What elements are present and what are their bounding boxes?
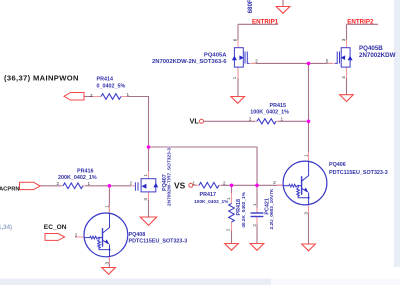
svg-text:1,34): 1,34) <box>0 224 12 231</box>
svg-text:2: 2 <box>90 93 93 98</box>
svg-text:3: 3 <box>104 262 109 265</box>
svg-text:1: 1 <box>226 197 231 200</box>
svg-text:40.2K_0402_1%: 40.2K_0402_1% <box>241 191 247 227</box>
svg-text:PR417: PR417 <box>200 192 216 198</box>
svg-text:1: 1 <box>281 117 284 122</box>
svg-text:PR414: PR414 <box>97 77 113 83</box>
svg-text:PDTC115EU_SOT323-3: PDTC115EU_SOT323-3 <box>329 170 388 176</box>
svg-text:3: 3 <box>143 198 148 201</box>
svg-text:6: 6 <box>232 38 237 41</box>
svg-text:1: 1 <box>232 76 237 79</box>
svg-text:2: 2 <box>57 181 60 186</box>
svg-text:1: 1 <box>104 205 109 208</box>
svg-text:100K_0402_1%: 100K_0402_1% <box>194 199 229 205</box>
svg-text:2N7002W-T/R7_SOT323-3: 2N7002W-T/R7_SOT323-3 <box>167 148 173 206</box>
svg-text:PR415: PR415 <box>270 103 286 109</box>
svg-text:EC_ON: EC_ON <box>44 224 67 231</box>
svg-text:2N7002KDW-2N_SOT363-6: 2N7002KDW-2N_SOT363-6 <box>152 59 227 65</box>
svg-text:PR416: PR416 <box>77 169 93 175</box>
svg-text:2: 2 <box>75 232 78 237</box>
svg-text:ENTRIP2: ENTRIP2 <box>347 19 374 26</box>
svg-text:ACPRN: ACPRN <box>0 186 20 192</box>
svg-text:1: 1 <box>88 181 91 186</box>
svg-text:VL: VL <box>190 116 200 125</box>
svg-text:2: 2 <box>223 180 226 185</box>
svg-text:680F: 680F <box>247 0 254 13</box>
svg-text:2: 2 <box>255 58 258 63</box>
svg-text:PQ406: PQ406 <box>329 162 346 168</box>
svg-text:2N7002KDW: 2N7002KDW <box>359 52 396 59</box>
svg-text:0_0402_5%: 0_0402_5% <box>97 84 126 90</box>
svg-text:5: 5 <box>326 58 329 63</box>
svg-text:ENTRIP1: ENTRIP1 <box>252 19 279 26</box>
svg-text:2.2U_0603_10V7K: 2.2U_0603_10V7K <box>269 188 275 229</box>
svg-text:PQ405A: PQ405A <box>204 52 227 58</box>
svg-text:1: 1 <box>127 92 130 97</box>
svg-text:1: 1 <box>143 174 148 177</box>
svg-text:PDTC115EU_SOT323-3: PDTC115EU_SOT323-3 <box>129 239 188 245</box>
svg-text:2: 2 <box>226 228 231 231</box>
svg-text:2: 2 <box>273 180 276 185</box>
svg-text:1: 1 <box>193 180 196 185</box>
svg-text:100K_0402_1%: 100K_0402_1% <box>250 110 289 116</box>
svg-text:2: 2 <box>130 180 133 185</box>
svg-text:2: 2 <box>249 117 252 122</box>
svg-text:3: 3 <box>304 212 309 215</box>
svg-text:200K_0402_1%: 200K_0402_1% <box>58 175 97 181</box>
svg-text:2: 2 <box>252 224 257 227</box>
svg-text:PQ408: PQ408 <box>129 232 146 238</box>
svg-text:(36,37) MAINPWON: (36,37) MAINPWON <box>4 74 79 83</box>
svg-text:4: 4 <box>341 76 346 79</box>
svg-text:VS: VS <box>174 181 186 191</box>
svg-text:3: 3 <box>341 38 346 41</box>
svg-text:1: 1 <box>304 154 309 157</box>
svg-text:1: 1 <box>252 203 257 206</box>
